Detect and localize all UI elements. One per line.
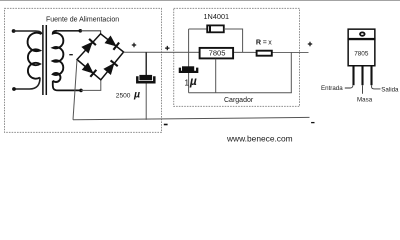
svg-text:7805: 7805: [354, 50, 369, 57]
bridge rectifier diamond outline: [77, 34, 124, 80]
capacitor C2 bottom cup: [180, 68, 197, 72]
wire main positive rail: [124, 51, 309, 53]
svg-text:Salida: Salida: [381, 86, 399, 93]
diode D4 (bottom-right edge): [104, 60, 118, 74]
wire diode loop top left: [189, 28, 207, 30]
wire primary bottom: [15, 78, 40, 90]
TO-220 package tab: [348, 29, 375, 39]
wire bridge negative vertical: [73, 60, 77, 120]
wire 7805 ground lead: [215, 59, 217, 93]
capacitor C1 top plate: [139, 75, 152, 80]
svg-text:=: =: [263, 40, 267, 47]
label plus between blocks: [165, 46, 169, 50]
label minus at output: [311, 122, 314, 124]
svg-text:1N4001: 1N4001: [204, 12, 230, 21]
wire charger input vertical (to diode loop and C2): [188, 29, 190, 67]
svg-text:R: R: [256, 38, 262, 47]
regulator U1 7805 box: [200, 48, 234, 59]
label plus at output: [308, 42, 312, 46]
svg-text:Cargador: Cargador: [224, 97, 254, 104]
TO-220 mounting hole: [360, 32, 365, 35]
svg-text:1: 1: [184, 78, 189, 88]
svg-text:x: x: [268, 40, 272, 47]
diode D2 (top-right edge): [105, 36, 119, 50]
capacitor C1 lead top: [145, 52, 147, 75]
label plus at bridge right: [132, 43, 136, 47]
wire secondary top to bridge: [57, 30, 80, 32]
wire primary top: [14, 31, 42, 34]
diode D5 cathode band: [209, 26, 211, 32]
TO-220 pin 3: [370, 67, 372, 86]
svg-text:µ: µ: [133, 89, 140, 101]
svg-text:7805: 7805: [209, 48, 226, 57]
capacitor C2 lead bottom: [188, 73, 190, 93]
wire charger ground return: [189, 92, 292, 94]
wire secondary bottom hook: [53, 81, 81, 91]
svg-text:Entrada: Entrada: [321, 85, 343, 92]
capacitor C2 top plate: [182, 66, 194, 71]
dashed enclosure: Cargador: [174, 8, 300, 106]
leader line Masa: [362, 85, 364, 94]
label minus at bridge left: [69, 54, 73, 56]
image top border: [0, 0, 400, 2]
dashed enclosure: Fuente de Alimentacion: [5, 8, 162, 132]
svg-text:Fuente de Alimentacion: Fuente de Alimentacion: [46, 16, 119, 23]
node secondary top junction dot: [79, 29, 83, 33]
resistor R1: [257, 51, 272, 56]
svg-text:µ: µ: [189, 74, 197, 88]
capacitor C1 bottom cup: [137, 76, 154, 82]
leader line Salida: [372, 85, 381, 89]
wire diode loop top right: [224, 29, 243, 52]
capacitor C1 lead bottom: [145, 84, 147, 120]
TO-220 package body: [348, 39, 375, 65]
diode D3 (left-bottom edge): [82, 63, 96, 77]
svg-text:2500: 2500: [116, 92, 131, 99]
label minus between blocks: [164, 124, 168, 126]
wire bottom negative rail: [73, 117, 310, 119]
TO-220 pin 1: [352, 67, 354, 86]
diode D5 1N4001 body: [207, 25, 224, 32]
svg-text:www.benece.com: www.benece.com: [226, 133, 293, 143]
wire to bridge bottom vertex: [81, 80, 101, 91]
diode D1 (left-top edge): [82, 39, 96, 53]
wire charger output vertical: [290, 52, 292, 92]
transformer T1 secondary winding: [53, 31, 64, 82]
wire to bridge top vertex: [80, 31, 100, 34]
TO-220 pin 2: [361, 67, 363, 86]
transformer core: [42, 25, 44, 95]
svg-text:Masa: Masa: [357, 96, 373, 103]
leader line Entrada: [345, 85, 353, 88]
node secondary bottom junction dot: [79, 89, 83, 93]
transformer T1 primary winding: [28, 33, 42, 79]
transformer T1 primary top terminal: [12, 29, 16, 33]
transformer T1 primary bottom terminal: [12, 87, 16, 91]
